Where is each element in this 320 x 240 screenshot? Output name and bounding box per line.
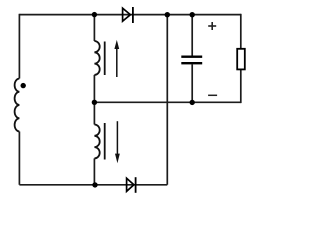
wire top rail: [19, 14, 240, 16]
transformer core bar upper: [104, 42, 106, 76]
wire middle branch bottom: [93, 158, 95, 184]
diode D2: [127, 177, 136, 193]
capacitor C1 plate bottom: [181, 62, 202, 64]
node capacitor bottom: [190, 100, 195, 105]
node center tap: [92, 100, 97, 105]
node D2 output on top rail: [165, 12, 170, 17]
capacitor C1 plate top: [181, 56, 202, 58]
wire cathode riser: [166, 15, 168, 185]
label plus: [208, 22, 216, 30]
node bottom of secondary: [92, 182, 97, 187]
wire middle branch center: [93, 75, 95, 125]
wire left branch upper: [18, 14, 20, 79]
transformer T1 primary winding L1: [15, 79, 20, 132]
resistor R1 load: [237, 49, 245, 70]
diode D1: [123, 7, 133, 23]
wire capacitor branch upper: [191, 15, 193, 56]
node top of secondary: [92, 12, 97, 17]
transformer core bar lower: [104, 123, 106, 160]
wire left branch lower: [18, 132, 20, 185]
wire right branch lower: [240, 70, 242, 103]
wire center minus rail: [94, 101, 240, 103]
wire right branch upper: [240, 14, 242, 48]
polarity arrow down: [115, 121, 120, 163]
polarity arrow up: [114, 40, 119, 77]
label minus: [208, 94, 217, 96]
polarity dot primary: [21, 83, 26, 88]
wire capacitor branch lower: [191, 64, 193, 102]
wire bottom rail: [19, 184, 167, 186]
transformer T1 secondary winding L3 lower: [94, 125, 99, 159]
transformer T1 secondary winding L2 upper: [94, 41, 99, 75]
wire middle branch top: [93, 15, 95, 41]
node capacitor top: [190, 12, 195, 17]
